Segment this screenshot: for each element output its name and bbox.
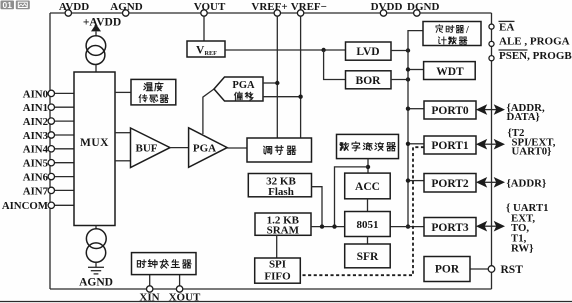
svg-text:DATA}: DATA} [507,111,540,123]
wire SRAM to SPI FIFO [276,235,278,258]
wire filter junction to 8051 bus [335,167,369,227]
pin XIN [139,275,159,303]
block 32KB Flash [248,174,311,198]
pin DVDD [371,1,403,16]
pin AIN5 [23,158,74,170]
wire LVD to bus [391,50,408,52]
pin AIN4 [23,144,74,156]
label PORT2 functions [507,177,547,189]
svg-text:EA: EA [499,22,514,34]
power +AVDD current source [83,17,121,73]
svg-text:AIN0: AIN0 [23,88,48,100]
block LVD [346,42,392,60]
junction [298,95,302,99]
svg-text:/: / [465,25,469,36]
pin AVDD [59,1,89,16]
junction flash [320,224,324,228]
wire 8051 to SFR [367,237,369,245]
wire bus to PORT2 [408,180,424,182]
svg-text:AIN4: AIN4 [23,144,49,156]
svg-text:PORT0: PORT0 [431,105,469,117]
svg-text:AIN2: AIN2 [23,116,48,128]
block BOR [346,71,392,89]
wire bus to PORT0 [408,108,424,110]
svg-text:ACC: ACC [355,181,380,193]
wire dashed SPI-FIFO to PORT1 [300,147,424,275]
svg-text:PGA: PGA [193,143,216,155]
junction [321,48,325,52]
label PORT3 functions [506,202,549,255]
svg-text:SRAM: SRAM [267,225,300,237]
pin EA [489,21,515,33]
wire internal bus [408,31,423,227]
buffer BUF [131,128,171,168]
junction filter [332,224,336,228]
block 8051 [345,212,391,237]
svg-text:VREF−: VREF− [291,1,327,13]
wire MUX to BUF (2) [115,132,131,134]
svg-text:PSEN, PROGB: PSEN, PROGB [499,50,572,62]
wire SRAM to 8051 [311,226,345,228]
svg-text:XIN: XIN [139,292,159,303]
arrow PORT2 bidirectional [476,177,505,188]
pin AGND [110,1,142,16]
wire bus to WDT [408,69,424,71]
wire VREF to LVD [225,49,346,51]
block 1.2KB SRAM [255,213,311,237]
pin DGND [407,1,439,16]
svg-text:AGND: AGND [79,277,113,289]
wire filter to ACC [367,159,369,174]
svg-text:POR: POR [435,264,460,276]
pin AINCOM [2,200,74,212]
arrow PORT0 bidirectional [476,104,505,115]
ground AGND [79,267,113,288]
pin VREF+ [251,1,287,16]
svg-text:UART0}: UART0} [512,146,552,158]
pin PSEN,PROGB [489,50,572,62]
svg-text:PORT1: PORT1 [431,140,469,152]
label PORT1 functions [508,127,556,158]
svg-text:FIFO: FIFO [264,271,291,283]
pin AIN6 [23,172,74,184]
svg-text:DGND: DGND [407,1,439,13]
block PGA offset [214,77,263,101]
block VREF [187,41,225,57]
block ACC [345,173,391,199]
block temperature sensor [131,79,176,105]
wire BUF to PGA [170,147,189,149]
pin AIN3 [23,130,74,142]
wire ACC to 8051 [367,199,369,212]
block timer/counter [423,22,481,46]
block SPI FIFO [255,258,301,283]
page badge 01 [1,0,15,10]
current source to AGND [86,226,106,268]
svg-text:BOR: BOR [356,75,382,87]
svg-text:AIN3: AIN3 [23,130,49,142]
svg-text:Flash: Flash [268,186,294,198]
svg-text:ALE , PROGA: ALE , PROGA [499,36,570,48]
svg-text:PGA: PGA [232,80,255,91]
svg-text:+AVDD: +AVDD [83,17,121,29]
svg-text:SPI: SPI [269,259,286,271]
wire offset out upper [263,82,277,84]
svg-text:MUX: MUX [80,137,109,149]
page bottom edge [0,301,572,303]
svg-text:RST: RST [501,264,524,276]
block digital filter [337,134,399,158]
block PORT2 [424,174,476,193]
svg-text:AIN1: AIN1 [23,102,48,114]
svg-text:AIN5: AIN5 [23,158,48,170]
block POR [424,257,470,282]
svg-text:REF: REF [205,50,218,57]
wire VOUT to VREF block [203,16,205,41]
wire BOR to bus [391,79,408,81]
wire 8051 to PORT3 [390,226,424,228]
svg-text:BUF: BUF [136,143,158,155]
svg-text:AINCOM: AINCOM [2,200,48,212]
svg-text:DVDD: DVDD [371,1,403,13]
pin RST [470,264,523,276]
wire top rail [50,12,492,14]
svg-text:VOUT: VOUT [194,1,226,13]
wire right bus [491,13,493,289]
block WDT [424,62,476,80]
wire left rail [49,13,51,289]
label PORT0 functions [507,102,545,123]
arrow PORT3 bidirectional [476,221,505,232]
svg-text:WDT: WDT [436,66,464,78]
junction bus/8051 [406,224,410,228]
pin ALE,PROGA [489,36,570,48]
block PORT0 [424,101,476,119]
wire MUX to temp sensor [115,91,131,93]
wire PGA offset to PGA [203,89,214,134]
wire bus to PORT1 [408,143,424,145]
wire bottom rail [50,288,492,290]
block PORT3 [424,218,476,237]
wire to BOR [324,50,346,80]
arrow PORT1 bidirectional [476,139,505,150]
svg-text:AIN6: AIN6 [23,172,49,184]
svg-text:01: 01 [3,0,13,10]
svg-text:PORT3: PORT3 [431,222,469,234]
pin VOUT [194,1,226,16]
svg-text:VREF+: VREF+ [251,1,287,13]
svg-text:AIN7: AIN7 [23,185,49,197]
block SFR [345,244,391,268]
block MUX [74,72,115,226]
pin AIN7 [23,185,74,197]
svg-text:XOUT: XOUT [169,292,201,303]
pin AIN1 [23,102,74,114]
wire offset out lower [263,96,301,98]
svg-text:RW}: RW} [511,243,533,255]
svg-text:{ADDR}: {ADDR} [507,177,547,189]
pin AIN2 [23,116,74,128]
wire flash to 8051 line [312,187,323,227]
svg-text:PORT2: PORT2 [431,178,469,190]
block PORT1 [424,136,476,154]
svg-text:LVD: LVD [356,46,379,58]
pin XOUT [169,275,201,303]
svg-text:8051: 8051 [357,219,379,231]
svg-text:SFR: SFR [357,251,379,263]
pin AIN0 [23,88,74,100]
wire PGA to modulator [227,147,247,149]
amplifier PGA [189,128,228,168]
wire VREF+ net [276,16,278,138]
svg-text:AVDD: AVDD [59,1,89,13]
pin VREF- [291,1,327,16]
wire VREF- net [300,16,302,138]
junction [275,81,279,85]
image icon badge [16,1,30,10]
svg-text:AGND: AGND [110,1,142,13]
block clock generator [132,253,197,275]
block modulator [247,138,312,162]
